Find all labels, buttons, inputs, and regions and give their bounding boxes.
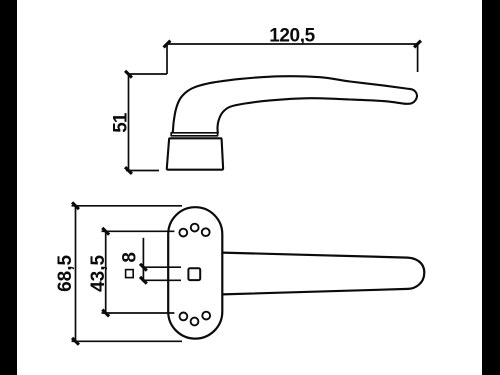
svg-text:68,5: 68,5 [55,254,76,291]
svg-text:43,5: 43,5 [88,254,109,291]
svg-text:120,5: 120,5 [269,25,315,46]
svg-text:8: 8 [119,252,140,263]
svg-text:51: 51 [111,112,132,133]
